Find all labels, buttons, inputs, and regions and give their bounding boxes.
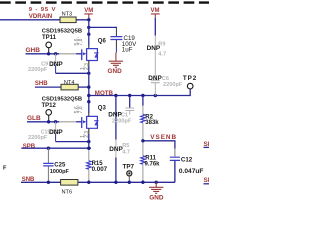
wire SPB bbox=[21, 147, 91, 149]
wire VDRAIN rail bbox=[0, 19, 89, 21]
svg-text:GLB: GLB bbox=[27, 115, 41, 122]
wire bus Q6 source to Q3 drain bbox=[88, 67, 90, 114]
node junction (48.6,53.8) bbox=[47, 52, 50, 55]
node junction (129.7,95.5) bbox=[128, 94, 131, 97]
net label SNB bbox=[22, 177, 35, 183]
svg-text:C6: C6 bbox=[162, 76, 169, 82]
svg-text:CSD19532Q5B: CSD19532Q5B bbox=[42, 97, 82, 103]
svg-text:TP2: TP2 bbox=[183, 75, 197, 82]
net label SHB bbox=[35, 81, 48, 87]
svg-text:2200pF: 2200pF bbox=[28, 67, 48, 73]
wire bus Q3 source down bbox=[88, 134, 90, 161]
wire SNB rail bbox=[21, 161, 175, 182]
svg-text:0.047uF: 0.047uF bbox=[179, 168, 204, 175]
wire VM to R9 bbox=[154, 18, 156, 36]
node junction (55.6,121.8) bbox=[54, 120, 57, 123]
wire GHB bbox=[26, 53, 60, 55]
wire VSENB bbox=[143, 141, 175, 149]
svg-text:VSENB: VSENB bbox=[150, 134, 177, 141]
svg-text:383k: 383k bbox=[145, 120, 159, 126]
svg-text:NT6: NT6 bbox=[62, 190, 73, 196]
wire GLB bbox=[27, 121, 59, 123]
wire branch to C19 bbox=[89, 26, 117, 29]
net label VDRAIN bbox=[29, 13, 52, 20]
svg-text:R5: R5 bbox=[122, 143, 129, 149]
wire C15 to source bbox=[56, 141, 89, 143]
transistor Q6 bbox=[82, 38, 107, 66]
svg-text:Q3: Q3 bbox=[98, 106, 107, 112]
svg-text:1uF: 1uF bbox=[122, 46, 133, 53]
net-tie NT6 bbox=[61, 180, 78, 196]
node junction (115.9,182.3) bbox=[114, 181, 117, 184]
capacitor C15 (DNP, greyed) gate-source Q3 bbox=[28, 122, 60, 142]
svg-text:C1: C1 bbox=[121, 112, 128, 118]
resistor R2 bbox=[141, 96, 160, 141]
svg-text:GHB: GHB bbox=[26, 47, 41, 54]
svg-text:CSD19532Q5B: CSD19532Q5B bbox=[42, 29, 82, 35]
svg-text:TP11: TP11 bbox=[42, 35, 57, 41]
svg-text:DNP: DNP bbox=[49, 61, 63, 68]
svg-text:4.7: 4.7 bbox=[122, 149, 130, 155]
node junction (142.9,140.8) bbox=[141, 139, 144, 142]
node junction (142.9,95.5) bbox=[141, 94, 144, 97]
svg-text:0.007: 0.007 bbox=[92, 166, 108, 173]
label DNP (C1) bbox=[108, 111, 122, 118]
svg-text:F: F bbox=[3, 165, 7, 171]
svg-text:C25: C25 bbox=[54, 162, 66, 168]
label DNP (R5) bbox=[109, 146, 123, 153]
label F (partial, cut off) bbox=[3, 165, 7, 171]
svg-text:SPB: SPB bbox=[23, 144, 36, 150]
transistor Q3 bbox=[82, 106, 107, 135]
node junction (88.8,182.3) bbox=[87, 181, 90, 184]
resistor R5 (DNP, greyed) column bbox=[116, 96, 130, 183]
svg-text:VM: VM bbox=[151, 8, 160, 14]
resistor R11 bbox=[141, 141, 160, 183]
resistor (DNP, greyed) in Q3 gate bbox=[59, 121, 76, 123]
svg-text:Q6: Q6 bbox=[98, 38, 107, 44]
svg-text:2200pF: 2200pF bbox=[163, 82, 183, 88]
pin numbers Q3 bottom bbox=[80, 131, 90, 138]
pin numbers Q3 top bbox=[74, 105, 84, 113]
net-tie NT4 bbox=[61, 80, 78, 90]
svg-text:SHB: SHB bbox=[35, 81, 48, 87]
test point TP11 bbox=[42, 35, 57, 54]
node junction (88.8,73.3) bbox=[87, 72, 90, 75]
svg-text:VM: VM bbox=[84, 8, 93, 14]
node junction (88.8,19.8) bbox=[87, 18, 90, 21]
node junction (88.8,101.7) bbox=[87, 100, 90, 103]
resistor R15 shunt bbox=[87, 161, 108, 183]
label DNP (C9) bbox=[49, 61, 63, 68]
resistor (DNP, greyed) in Q6 gate bbox=[59, 53, 76, 55]
net label GLB bbox=[27, 115, 41, 122]
wire bus VM to Q6 drain bbox=[88, 20, 90, 46]
svg-text:DNP: DNP bbox=[148, 75, 162, 82]
net label VSENB bbox=[150, 134, 177, 141]
label DNP (C15) bbox=[49, 129, 63, 136]
power symbol VM (right) bbox=[151, 8, 160, 18]
wire C9 to source bbox=[56, 72, 89, 74]
resistor R9 (DNP, greyed) bbox=[155, 36, 166, 80]
pin numbers Q6 bottom bbox=[80, 63, 90, 70]
node junction (142.9,182.3) bbox=[141, 181, 144, 184]
label DNP (C6) bbox=[148, 75, 162, 82]
node junction (88.8,87.1) bbox=[87, 85, 90, 88]
svg-text:9.76k: 9.76k bbox=[145, 161, 161, 167]
capacitor C1 (DNP, greyed) bbox=[112, 96, 134, 125]
capacitor C6 (DNP, greyed) bbox=[151, 76, 183, 96]
net label MOTB bbox=[95, 90, 114, 97]
svg-text:1000pF: 1000pF bbox=[50, 169, 70, 175]
wire NT4 to bus bbox=[78, 86, 89, 88]
pin numbers Q6 top bbox=[74, 37, 84, 45]
net label SPB bbox=[23, 144, 36, 150]
svg-text:GND: GND bbox=[149, 194, 164, 201]
net-tie NT3 bbox=[60, 12, 76, 23]
node junction (88.8,34.2) bbox=[87, 33, 90, 36]
svg-text:DNP: DNP bbox=[147, 45, 161, 52]
net label SN (partial, right edge) bbox=[204, 177, 213, 184]
node junction (88.8,148.2) bbox=[87, 147, 90, 150]
net label GHB bbox=[26, 47, 41, 54]
ground GND (bottom) bbox=[149, 182, 164, 201]
wire gate lead Q3 bbox=[76, 121, 82, 123]
label DNP (R9) bbox=[147, 45, 161, 52]
svg-text:9 - 95 V: 9 - 95 V bbox=[29, 7, 56, 13]
dashed border top bbox=[0, 1, 209, 3]
svg-text:2200pF: 2200pF bbox=[112, 119, 132, 125]
capacitor C25 bbox=[43, 148, 69, 182]
wire gate lead Q6 bbox=[76, 53, 82, 55]
svg-text:7,8: 7,8 bbox=[78, 106, 84, 113]
wire SHB bbox=[35, 86, 61, 88]
test point TP2 bbox=[183, 75, 197, 89]
net label SP (partial, right edge) bbox=[204, 141, 213, 148]
svg-text:C12: C12 bbox=[181, 156, 193, 163]
node junction (88.8,141.6) bbox=[87, 140, 90, 143]
svg-text:DNP: DNP bbox=[108, 111, 122, 118]
svg-text:DNP: DNP bbox=[109, 146, 123, 153]
test point TP7 bbox=[123, 164, 135, 183]
node junction (88.8,26.8) bbox=[87, 26, 90, 29]
svg-text:TP12: TP12 bbox=[42, 103, 57, 109]
power symbol VM (left) bbox=[84, 8, 93, 20]
svg-text:GND: GND bbox=[108, 68, 123, 75]
ground GND (C19) bbox=[108, 53, 124, 75]
svg-text:SN: SN bbox=[204, 177, 210, 184]
svg-text:4.7: 4.7 bbox=[158, 51, 166, 57]
node junction (48.4,148.2) bbox=[47, 147, 50, 150]
node junction (48.4,182.3) bbox=[47, 181, 50, 184]
wire MOTB rail bbox=[89, 89, 190, 95]
label CSD19532Q5B (Q3) bbox=[42, 97, 82, 103]
capacitor C19 bbox=[110, 28, 137, 53]
svg-text:7,8: 7,8 bbox=[78, 38, 84, 45]
label CSD19532Q5B (Q6) bbox=[42, 29, 82, 35]
capacitor C12 bbox=[170, 149, 204, 183]
node junction (129.3,182.3) bbox=[128, 181, 131, 184]
node junction (156.2,182.3) bbox=[155, 181, 158, 184]
node junction (48.6,121.8) bbox=[47, 120, 50, 123]
svg-text:2200pF: 2200pF bbox=[28, 135, 48, 141]
svg-text:DNP: DNP bbox=[49, 129, 63, 136]
node junction (155.3,95.5) bbox=[154, 94, 157, 97]
node junction (55.6,53.8) bbox=[54, 52, 57, 55]
test point TP12 bbox=[42, 103, 57, 122]
node junction (88.8,95.5) bbox=[87, 94, 90, 97]
node junction (115.9,95.5) bbox=[114, 94, 117, 97]
capacitor C9 (DNP, greyed) gate-source Q6 bbox=[28, 54, 60, 74]
svg-text:TP7: TP7 bbox=[123, 164, 135, 171]
label 9 - 95 V bbox=[29, 7, 56, 13]
